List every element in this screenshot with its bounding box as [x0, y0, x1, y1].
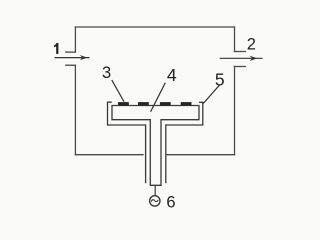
substrate 3d: [181, 102, 192, 105]
leader line from 4 to susceptor plate: [151, 83, 166, 112]
outlet port upper stub: [235, 51, 246, 53]
label 1: [54, 43, 58, 54]
susceptor plate 4 (inner T outline): [112, 106, 199, 186]
inlet port lower stub: [66, 64, 76, 66]
chamber top wall: [75, 26, 234, 28]
substrate 3b: [138, 102, 149, 105]
chamber left wall lower segment: [74, 65, 76, 155]
svg-text:3: 3: [102, 64, 111, 82]
chamber right wall lower segment: [234, 67, 236, 155]
inlet port upper stub: [66, 51, 76, 53]
chamber right wall upper segment: [234, 27, 236, 52]
tilde inside source: [151, 200, 158, 202]
wire from stem to source: [154, 185, 156, 195]
svg-text:6: 6: [166, 194, 175, 212]
outlet port lower stub: [235, 66, 246, 68]
svg-text:2: 2: [247, 36, 256, 54]
leader line from 5 to holder rim: [203, 85, 220, 104]
chamber bottom wall left segment: [75, 154, 143, 156]
gas inlet arrow 1: [55, 55, 90, 60]
substrate 3a: [118, 102, 129, 105]
gas outlet arrow 2: [220, 56, 263, 61]
svg-text:5: 5: [215, 69, 225, 89]
leader line from 3 to substrate: [112, 80, 124, 102]
substrate 3c: [160, 102, 171, 105]
chamber bottom wall right segment: [167, 154, 235, 156]
AC power source 6: [150, 196, 160, 206]
holder / outer shield 5 (outer T outline, open top): [108, 102, 203, 183]
svg-text:4: 4: [167, 65, 177, 85]
chamber left wall upper segment: [74, 27, 76, 52]
